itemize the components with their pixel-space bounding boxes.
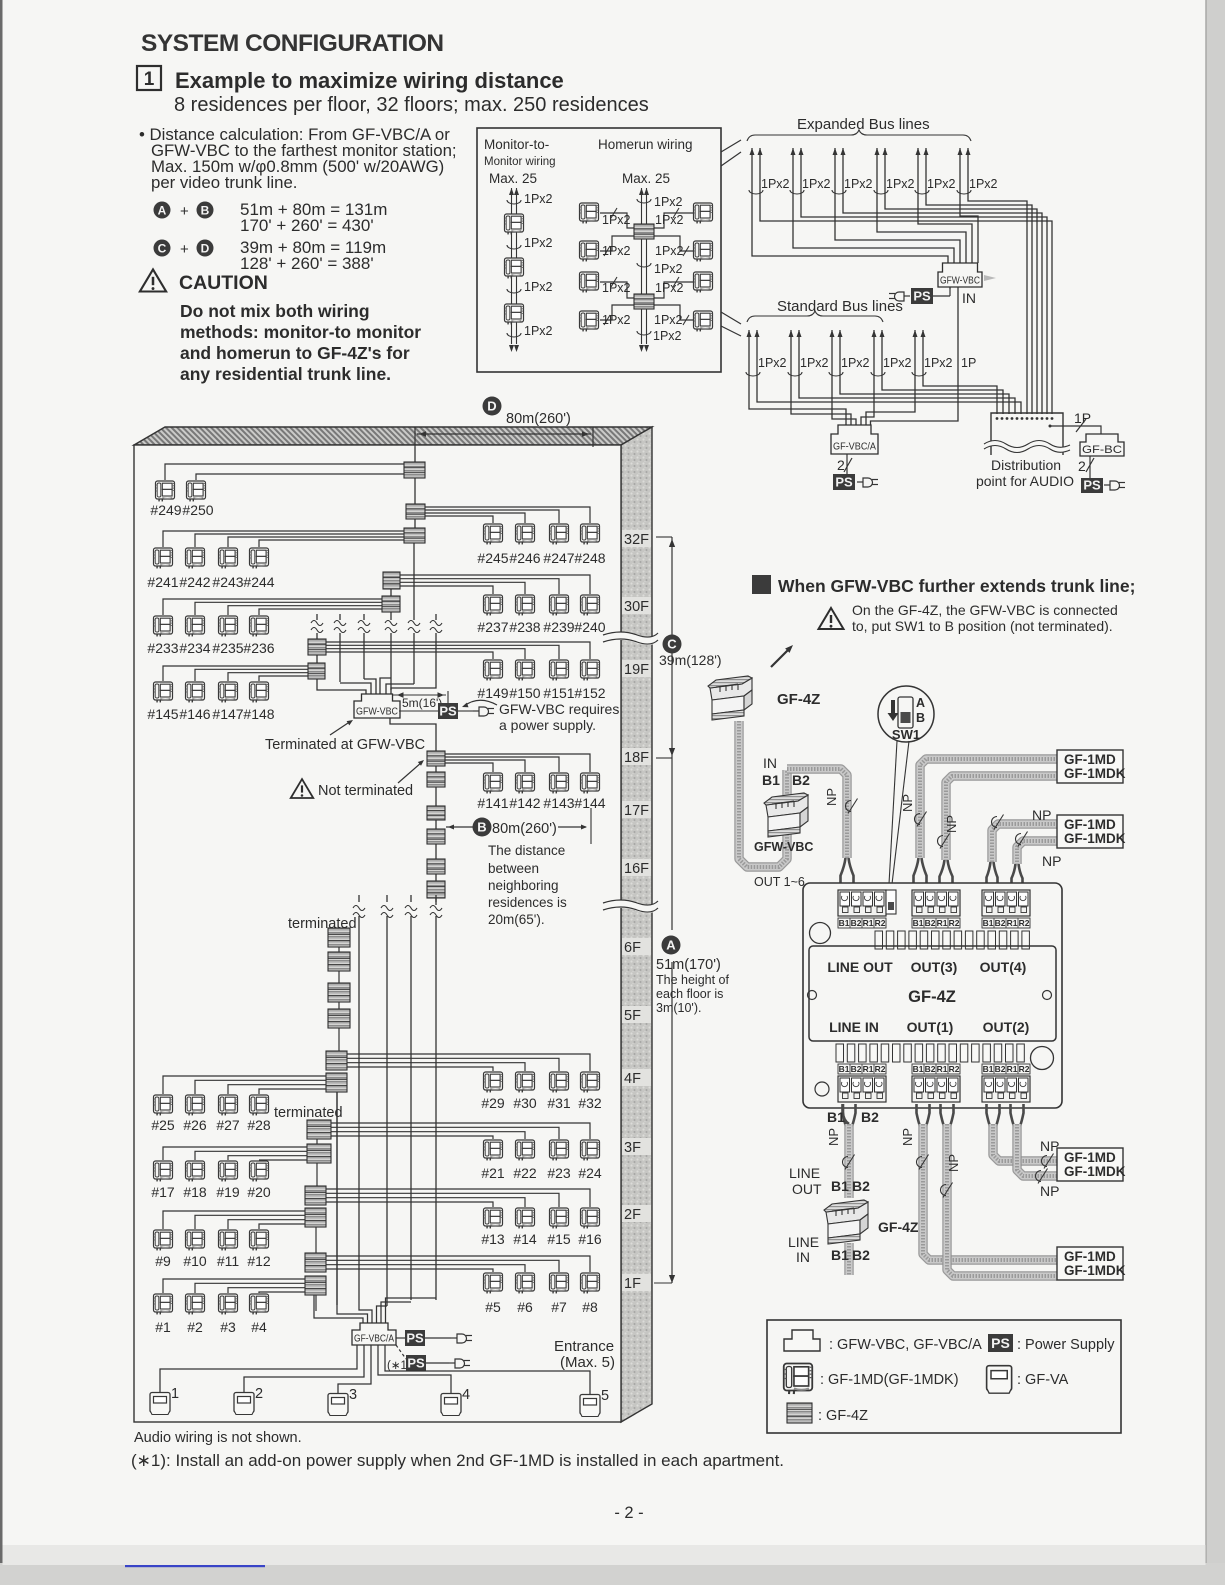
svg-text:#237: #237	[477, 619, 508, 635]
svg-text:#6: #6	[517, 1299, 533, 1315]
svg-text:#142: #142	[509, 795, 540, 811]
svg-text:Standard Bus lines: Standard Bus lines	[777, 298, 903, 315]
svg-text:B1: B1	[831, 1247, 849, 1263]
svg-text:8 residences per floor, 32 flo: 8 residences per floor, 32 floors; max. …	[174, 94, 649, 116]
svg-text:IN: IN	[796, 1249, 810, 1265]
svg-text:any residential trunk line.: any residential trunk line.	[180, 364, 391, 384]
svg-text:neighboring: neighboring	[488, 878, 559, 893]
svg-text:1Px2: 1Px2	[654, 313, 683, 327]
svg-text:3m(10').: 3m(10').	[656, 1001, 701, 1015]
svg-text:LINE: LINE	[788, 1234, 819, 1250]
svg-text:#19: #19	[216, 1184, 240, 1200]
svg-text:NP: NP	[900, 794, 915, 812]
svg-text:R2: R2	[875, 918, 886, 928]
svg-text:4F: 4F	[624, 1071, 641, 1087]
svg-text:GF-4Z: GF-4Z	[878, 1219, 919, 1235]
svg-text:#249: #249	[150, 502, 181, 518]
svg-text:80m(260'): 80m(260')	[506, 411, 571, 427]
svg-text:: GF-4Z: : GF-4Z	[818, 1408, 868, 1424]
svg-text:B2: B2	[852, 1178, 870, 1194]
svg-text:GF-1MD: GF-1MD	[1064, 1249, 1116, 1264]
svg-text:C: C	[158, 241, 167, 255]
svg-text:OUT(1): OUT(1)	[907, 1019, 954, 1035]
svg-text:#247: #247	[543, 550, 574, 566]
svg-text:3: 3	[349, 1387, 357, 1403]
svg-text:#15: #15	[547, 1231, 571, 1247]
svg-text:#3: #3	[220, 1319, 236, 1335]
svg-text:1Px2: 1Px2	[524, 236, 553, 250]
svg-text:NP: NP	[900, 1128, 915, 1146]
svg-text:1Px2: 1Px2	[802, 177, 831, 191]
svg-text:#233: #233	[147, 640, 178, 656]
svg-text:#141: #141	[477, 795, 508, 811]
svg-text:OUT(2): OUT(2)	[983, 1019, 1030, 1035]
svg-text:1Px2: 1Px2	[524, 280, 553, 294]
svg-text:#8: #8	[582, 1299, 598, 1315]
svg-text:#4: #4	[251, 1319, 267, 1335]
svg-text:PS: PS	[913, 288, 931, 303]
svg-text:#16: #16	[578, 1231, 602, 1247]
svg-text:GF-1MD: GF-1MD	[1064, 752, 1116, 767]
svg-text:B1: B1	[983, 1064, 994, 1074]
svg-text:#147: #147	[212, 706, 243, 722]
svg-text:between: between	[488, 861, 539, 876]
svg-text:B2: B2	[851, 918, 862, 928]
svg-text:SYSTEM CONFIGURATION: SYSTEM CONFIGURATION	[141, 30, 444, 57]
svg-text:1Px2: 1Px2	[800, 356, 829, 370]
svg-text:#18: #18	[183, 1184, 207, 1200]
svg-text:Expanded Bus lines: Expanded Bus lines	[797, 116, 930, 133]
svg-text:R2: R2	[949, 1064, 960, 1074]
svg-text:32F: 32F	[624, 532, 649, 548]
svg-text:IN: IN	[763, 755, 777, 771]
svg-text:Homerun wiring: Homerun wiring	[598, 137, 693, 152]
svg-text:When GFW-VBC further extends t: When GFW-VBC further extends trunk line;	[778, 576, 1135, 596]
svg-text:18F: 18F	[624, 750, 649, 766]
svg-text:1: 1	[144, 69, 155, 90]
svg-text:NP: NP	[1032, 807, 1051, 823]
svg-text:B1: B1	[839, 918, 850, 928]
svg-text:GF-1MDK: GF-1MDK	[1064, 1164, 1126, 1179]
svg-text:Monitor-to-: Monitor-to-	[484, 137, 549, 152]
svg-text:B2: B2	[995, 918, 1006, 928]
svg-text:1Px2: 1Px2	[655, 213, 684, 227]
svg-text:residences is: residences is	[488, 895, 567, 910]
svg-text:GFW-VBC: GFW-VBC	[754, 840, 813, 854]
svg-text:#24: #24	[578, 1165, 602, 1181]
svg-text:GF-BC: GF-BC	[1082, 444, 1122, 456]
svg-text:#28: #28	[247, 1117, 271, 1133]
svg-text:R2: R2	[875, 1064, 886, 1074]
svg-text:4: 4	[462, 1387, 470, 1403]
svg-text:#12: #12	[247, 1253, 271, 1269]
svg-text:terminated: terminated	[274, 1105, 343, 1121]
svg-text:#146: #146	[179, 706, 210, 722]
svg-text:80m(260'): 80m(260')	[492, 821, 557, 837]
svg-text:PS: PS	[407, 1355, 425, 1370]
svg-text:#21: #21	[481, 1165, 505, 1181]
svg-text:PS: PS	[406, 1330, 424, 1345]
svg-text:#10: #10	[183, 1253, 207, 1269]
svg-text:#25: #25	[151, 1117, 175, 1133]
svg-text:B2: B2	[925, 1064, 936, 1074]
svg-text:Do not mix both wiring: Do not mix both wiring	[180, 301, 370, 321]
svg-text:#11: #11	[217, 1253, 240, 1269]
svg-text:20m(65').: 20m(65').	[488, 912, 545, 927]
svg-text:#152: #152	[574, 685, 605, 701]
svg-text:#238: #238	[509, 619, 540, 635]
svg-text:1Px2: 1Px2	[844, 177, 873, 191]
svg-text:: Power Supply: : Power Supply	[1017, 1337, 1115, 1353]
svg-text:#20: #20	[247, 1184, 271, 1200]
svg-text:#22: #22	[513, 1165, 537, 1181]
svg-text:1Px2: 1Px2	[655, 281, 684, 295]
svg-text:: GF-VA: : GF-VA	[1017, 1372, 1069, 1388]
svg-text:#244: #244	[243, 574, 274, 590]
svg-text:GF-1MD: GF-1MD	[1064, 1150, 1116, 1165]
svg-text:: GFW-VBC, GF-VBC/A: : GFW-VBC, GF-VBC/A	[829, 1337, 982, 1353]
svg-text:B2: B2	[995, 1064, 1006, 1074]
svg-text:R1: R1	[863, 1064, 874, 1074]
svg-text:1Px2: 1Px2	[924, 356, 953, 370]
svg-text:1Px2: 1Px2	[653, 329, 682, 343]
svg-text:Audio wiring is not shown.: Audio wiring is not shown.	[134, 1430, 302, 1446]
svg-text:1Px2: 1Px2	[655, 244, 684, 258]
svg-text:A: A	[158, 203, 167, 217]
svg-text:#29: #29	[481, 1095, 505, 1111]
svg-text:R1: R1	[1007, 1064, 1018, 1074]
svg-text:2: 2	[255, 1386, 263, 1402]
svg-text:1Px2: 1Px2	[927, 177, 956, 191]
svg-text:D: D	[487, 399, 496, 414]
svg-text:30F: 30F	[624, 599, 649, 615]
svg-text:and homerun to GF-4Z's for: and homerun to GF-4Z's for	[180, 343, 410, 363]
svg-text:B2: B2	[861, 1109, 879, 1125]
svg-text:NP: NP	[1042, 853, 1061, 869]
svg-text:R2: R2	[1019, 918, 1030, 928]
svg-text:1: 1	[171, 1386, 179, 1402]
svg-text:1Px2: 1Px2	[602, 213, 631, 227]
svg-text:#243: #243	[212, 574, 243, 590]
svg-text:GF-VBC/A: GF-VBC/A	[354, 1334, 394, 1345]
svg-text:B2: B2	[925, 918, 936, 928]
svg-text:GF-VBC/A: GF-VBC/A	[833, 441, 876, 453]
svg-text:16F: 16F	[624, 861, 649, 877]
svg-text:1Px2: 1Px2	[969, 177, 998, 191]
svg-text:#31: #31	[547, 1095, 571, 1111]
svg-text:Terminated at GFW-VBC: Terminated at GFW-VBC	[265, 737, 425, 753]
svg-text:#248: #248	[574, 550, 605, 566]
svg-text:#246: #246	[509, 550, 540, 566]
svg-text:1Px2: 1Px2	[761, 177, 790, 191]
svg-text:#9: #9	[155, 1253, 171, 1269]
svg-text:NP: NP	[826, 1128, 841, 1146]
svg-text:PS: PS	[835, 474, 853, 489]
svg-text:GFW-VBC: GFW-VBC	[356, 705, 398, 717]
svg-text:1Px2: 1Px2	[654, 195, 683, 209]
svg-text:17F: 17F	[624, 803, 649, 819]
svg-text:LINE: LINE	[789, 1165, 820, 1181]
svg-text:B2: B2	[792, 772, 810, 788]
svg-text:SW1: SW1	[892, 727, 920, 742]
svg-text:+: +	[180, 241, 189, 258]
svg-text:Entrance: Entrance	[554, 1338, 614, 1355]
svg-text:#13: #13	[481, 1231, 505, 1247]
svg-text:D: D	[201, 241, 210, 255]
svg-text:1P: 1P	[961, 356, 976, 370]
svg-text:B1: B1	[913, 918, 924, 928]
svg-text:2F: 2F	[624, 1207, 641, 1223]
svg-text:GF-1MD: GF-1MD	[1064, 817, 1116, 832]
svg-text:PS: PS	[1083, 478, 1101, 493]
svg-text:methods: monitor-to monitor: methods: monitor-to monitor	[180, 322, 421, 342]
svg-text:R2: R2	[1019, 1064, 1030, 1074]
svg-text:B1: B1	[983, 918, 994, 928]
svg-text:A: A	[666, 938, 676, 953]
svg-text:39m(128'): 39m(128')	[659, 652, 722, 668]
svg-text:#1: #1	[155, 1319, 171, 1335]
svg-text:PS: PS	[439, 703, 457, 718]
svg-text:Distribution: Distribution	[991, 457, 1061, 473]
svg-text:Max. 25: Max. 25	[622, 171, 670, 186]
svg-text:- 2 -: - 2 -	[614, 1504, 643, 1522]
svg-text:(∗1): Install an add-on power: (∗1): Install an add-on power supply whe…	[131, 1451, 784, 1470]
svg-text:#14: #14	[513, 1231, 537, 1247]
svg-text:#17: #17	[151, 1184, 175, 1200]
svg-text:B1: B1	[831, 1178, 849, 1194]
svg-text:NP: NP	[1040, 1183, 1059, 1199]
svg-text:R2: R2	[949, 918, 960, 928]
svg-text:to, put SW1 to B position (not: to, put SW1 to B position (not terminate…	[852, 618, 1113, 634]
svg-text:B1: B1	[827, 1109, 845, 1125]
svg-text:1Px2: 1Px2	[602, 313, 631, 327]
svg-text:128' + 260' = 388': 128' + 260' = 388'	[240, 254, 374, 273]
svg-text:#150: #150	[509, 685, 540, 701]
svg-text:LINE OUT: LINE OUT	[827, 959, 893, 975]
svg-text:C: C	[667, 637, 677, 652]
svg-text:B: B	[916, 711, 925, 725]
svg-text:#234: #234	[179, 640, 210, 656]
svg-text:5: 5	[601, 1388, 609, 1404]
svg-text:1Px2: 1Px2	[654, 262, 683, 276]
svg-text:The height of: The height of	[656, 973, 729, 987]
svg-text:On the GF-4Z, the GFW-VBC is c: On the GF-4Z, the GFW-VBC is connected	[852, 602, 1118, 618]
svg-text:#250: #250	[182, 502, 213, 518]
svg-text:NP: NP	[946, 1154, 961, 1172]
svg-text:B1: B1	[762, 772, 780, 788]
svg-text:#235: #235	[212, 640, 243, 656]
svg-text:1Px2: 1Px2	[758, 356, 787, 370]
svg-text:B1: B1	[839, 1064, 850, 1074]
svg-text:Max. 25: Max. 25	[489, 171, 537, 186]
svg-text:#236: #236	[243, 640, 274, 656]
svg-text:1Px2: 1Px2	[524, 192, 553, 206]
svg-text:#144: #144	[574, 795, 605, 811]
svg-text:a power supply.: a power supply.	[499, 717, 596, 733]
svg-text:B: B	[477, 820, 486, 835]
svg-text:B: B	[201, 203, 210, 217]
svg-text:OUT: OUT	[792, 1181, 822, 1197]
svg-text:OUT 1~6: OUT 1~6	[754, 875, 805, 889]
svg-text:5m(16'): 5m(16')	[402, 696, 442, 710]
svg-text:#27: #27	[216, 1117, 240, 1133]
svg-text:1Px2: 1Px2	[524, 324, 553, 338]
svg-text:3F: 3F	[624, 1140, 641, 1156]
svg-text:#149: #149	[477, 685, 508, 701]
svg-text:per video trunk line.: per video trunk line.	[151, 173, 297, 192]
svg-text:#2: #2	[187, 1319, 203, 1335]
svg-text:19F: 19F	[624, 662, 649, 678]
svg-text:GFW-VBC requires: GFW-VBC requires	[499, 701, 619, 717]
svg-text:Monitor wiring: Monitor wiring	[484, 156, 556, 168]
svg-text:1F: 1F	[624, 1276, 641, 1292]
svg-text:#26: #26	[183, 1117, 207, 1133]
svg-text:170' + 260' = 430': 170' + 260' = 430'	[240, 216, 374, 235]
svg-text:1Px2: 1Px2	[602, 244, 631, 258]
svg-text:GF-4Z: GF-4Z	[777, 691, 820, 708]
svg-text:#5: #5	[485, 1299, 501, 1315]
svg-text:CAUTION: CAUTION	[179, 272, 268, 294]
svg-text:each floor is: each floor is	[656, 987, 723, 1001]
svg-text:Not terminated: Not terminated	[318, 783, 413, 799]
svg-text:OUT(4): OUT(4)	[980, 959, 1027, 975]
svg-text:GFW-VBC: GFW-VBC	[940, 275, 980, 287]
svg-text:#145: #145	[147, 706, 178, 722]
svg-text:1Px2: 1Px2	[886, 177, 915, 191]
svg-text:6F: 6F	[624, 940, 641, 956]
svg-text:GF-4Z: GF-4Z	[908, 988, 956, 1006]
svg-text:#148: #148	[243, 706, 274, 722]
svg-text:#7: #7	[551, 1299, 567, 1315]
svg-text:2: 2	[837, 457, 845, 473]
svg-text:#151: #151	[543, 685, 574, 701]
svg-text:1Px2: 1Px2	[841, 356, 870, 370]
svg-text:#241: #241	[147, 574, 178, 590]
svg-text:+: +	[180, 203, 189, 220]
svg-text:The distance: The distance	[488, 843, 565, 858]
svg-text:B2: B2	[851, 1064, 862, 1074]
svg-text:R1: R1	[937, 918, 948, 928]
svg-text:1Px2: 1Px2	[602, 281, 631, 295]
svg-text:R1: R1	[937, 1064, 948, 1074]
svg-text:GF-1MDK: GF-1MDK	[1064, 1263, 1126, 1278]
svg-text:PS: PS	[991, 1335, 1010, 1351]
svg-text:#32: #32	[578, 1095, 602, 1111]
svg-text:B1: B1	[913, 1064, 924, 1074]
svg-text:#242: #242	[179, 574, 210, 590]
svg-text:A: A	[916, 696, 925, 710]
svg-text:NP: NP	[824, 788, 839, 806]
svg-text:GF-1MDK: GF-1MDK	[1064, 766, 1126, 781]
svg-text:#30: #30	[513, 1095, 537, 1111]
svg-text:R1: R1	[863, 918, 874, 928]
svg-text:LINE IN: LINE IN	[829, 1019, 879, 1035]
svg-text:GF-1MDK: GF-1MDK	[1064, 831, 1126, 846]
svg-text:#239: #239	[543, 619, 574, 635]
svg-text:Example to maximize wiring dis: Example to maximize wiring distance	[175, 68, 564, 93]
svg-text:#143: #143	[543, 795, 574, 811]
svg-text:5F: 5F	[624, 1008, 641, 1024]
svg-text:B2: B2	[852, 1247, 870, 1263]
svg-text:OUT(3): OUT(3)	[911, 959, 958, 975]
svg-text:2: 2	[1078, 458, 1086, 474]
svg-text:#23: #23	[547, 1165, 571, 1181]
svg-text:point for AUDIO: point for AUDIO	[976, 473, 1074, 489]
svg-text:#245: #245	[477, 550, 508, 566]
svg-text:51m(170'): 51m(170')	[656, 957, 721, 973]
svg-text:R1: R1	[1007, 918, 1018, 928]
svg-text:(Max. 5): (Max. 5)	[560, 1354, 615, 1371]
svg-text:NP: NP	[944, 815, 959, 833]
svg-text:1Px2: 1Px2	[883, 356, 912, 370]
svg-text:: GF-1MD(GF-1MDK): : GF-1MD(GF-1MDK)	[820, 1372, 959, 1388]
svg-text:#240: #240	[574, 619, 605, 635]
svg-text:IN: IN	[962, 290, 976, 306]
